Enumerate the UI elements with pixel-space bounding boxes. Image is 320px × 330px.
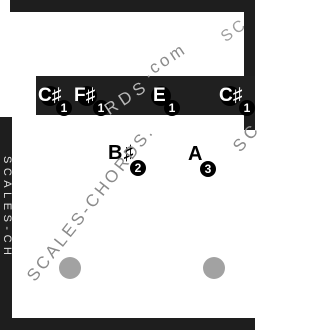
right fret marker dot bbox=[203, 257, 225, 279]
top fret edge bar bbox=[10, 0, 255, 12]
finger 1 under F# bbox=[93, 100, 109, 116]
diagonal watermark faint continuation at top-right corner bbox=[218, 15, 251, 46]
left fret marker dot bbox=[59, 257, 81, 279]
diagonal watermark line B part 1: RDS light on fret bar bbox=[101, 76, 153, 120]
finger 1 under C#1 bbox=[56, 100, 72, 116]
vertical white label on left nut bar bbox=[1, 156, 13, 259]
diagonal watermark line B part 2: .com above bar bbox=[139, 39, 191, 83]
finger 3 under A bbox=[200, 161, 216, 177]
diagonal watermark line A (lower-left) SCALES-CHORDS. bbox=[23, 122, 159, 286]
note label C#1 bbox=[38, 85, 61, 107]
left nut bar bbox=[0, 117, 12, 330]
note label E bbox=[153, 85, 166, 107]
note label F# bbox=[74, 85, 95, 107]
diagonal watermark line C fragment at right edge bbox=[229, 118, 265, 156]
note label C#2 bbox=[219, 85, 242, 107]
note circle F# bbox=[77, 86, 97, 106]
finger 2 under B# bbox=[130, 160, 146, 176]
note label B# (row 2) bbox=[108, 142, 134, 165]
note circle C#2 bbox=[220, 86, 240, 106]
finger 1 under E bbox=[164, 100, 180, 116]
note circle E bbox=[151, 86, 171, 106]
note circle C#1 bbox=[40, 86, 60, 106]
note label A (row 2) bbox=[188, 143, 202, 166]
bottom fret edge bar bbox=[0, 318, 255, 330]
finger 1 under C#2 bbox=[239, 100, 255, 116]
right nut bar bbox=[244, 0, 255, 130]
fretboard bar bbox=[36, 76, 255, 115]
